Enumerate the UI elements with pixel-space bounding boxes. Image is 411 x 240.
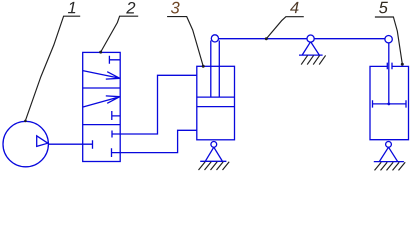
label 5 bbox=[379, 2, 388, 14]
cylinder C3 support triangle bbox=[206, 147, 223, 161]
valve V2 section1 blocked port T bbox=[109, 56, 120, 64]
label 2 bbox=[126, 2, 135, 14]
label 1 bbox=[68, 2, 75, 13]
leader line label 2 bbox=[101, 16, 139, 52]
leader line label 5 bbox=[375, 17, 402, 64]
leader dot 2 bbox=[99, 51, 102, 54]
cylinder C3 support pivot circle bbox=[211, 142, 217, 148]
pipe B valve to cylinder3 lower port bbox=[120, 130, 196, 152]
cylinder C5 support pivot circle bbox=[386, 142, 392, 148]
valve V2 section2 flow arrow bbox=[83, 96, 120, 107]
leader line label 4 bbox=[266, 17, 304, 39]
cylinder C3 body bbox=[197, 66, 235, 140]
mid support pivot circle bbox=[307, 35, 314, 42]
cylinder C5 support triangle bbox=[380, 147, 398, 161]
label 3 bbox=[171, 2, 180, 14]
cylinder C3 support ground line bbox=[200, 160, 226, 162]
mid support hatching bbox=[301, 55, 325, 64]
link L4 bbox=[215, 38, 389, 40]
valve V2 port B T bbox=[112, 148, 121, 157]
valve V2 pump port T bbox=[83, 140, 93, 149]
leader dot 3 bbox=[202, 65, 205, 68]
valve V2 upper box (two positions) bbox=[83, 52, 121, 161]
valve V2 position divider 2 bbox=[83, 124, 121, 126]
cylinder C5 rod bbox=[388, 39, 390, 104]
leader dot 4 bbox=[265, 37, 268, 40]
pin joint at cylinder3 rod bbox=[211, 35, 218, 42]
valve V2 position divider bbox=[83, 87, 121, 89]
leader dot 5 bbox=[401, 63, 404, 66]
valve V2 port A T bbox=[112, 131, 120, 138]
mid support ground line bbox=[299, 54, 323, 56]
pin joint at link right end bbox=[385, 36, 392, 43]
label 4 bbox=[290, 2, 298, 13]
pump P1 triangle bbox=[37, 136, 48, 147]
cylinder C3 support hatching bbox=[199, 162, 230, 170]
cylinder C3 piston band bbox=[197, 97, 235, 107]
cylinder C5 support ground line bbox=[374, 161, 404, 163]
cylinder C5 rod gland ticks bbox=[387, 63, 392, 70]
leader line label 3 bbox=[167, 17, 203, 67]
leader dot 1 bbox=[24, 120, 27, 123]
cylinder C5 body bbox=[370, 66, 409, 139]
valve V2 section2 blocked port T bbox=[112, 111, 121, 120]
cylinder C5 piston bbox=[373, 100, 407, 107]
pump P1 circle bbox=[3, 121, 48, 166]
cylinder C3 rod bbox=[211, 41, 220, 98]
valve V2 section1 flow arrow bbox=[83, 71, 120, 80]
leader line label 1 bbox=[25, 16, 80, 121]
mid support triangle bbox=[302, 42, 319, 55]
cylinder C5 piston rod dot bbox=[387, 103, 390, 106]
wire pump to valve bbox=[48, 143, 83, 145]
pipe A valve to cylinder3 upper port bbox=[120, 75, 196, 134]
cylinder C5 support hatching bbox=[375, 162, 406, 170]
